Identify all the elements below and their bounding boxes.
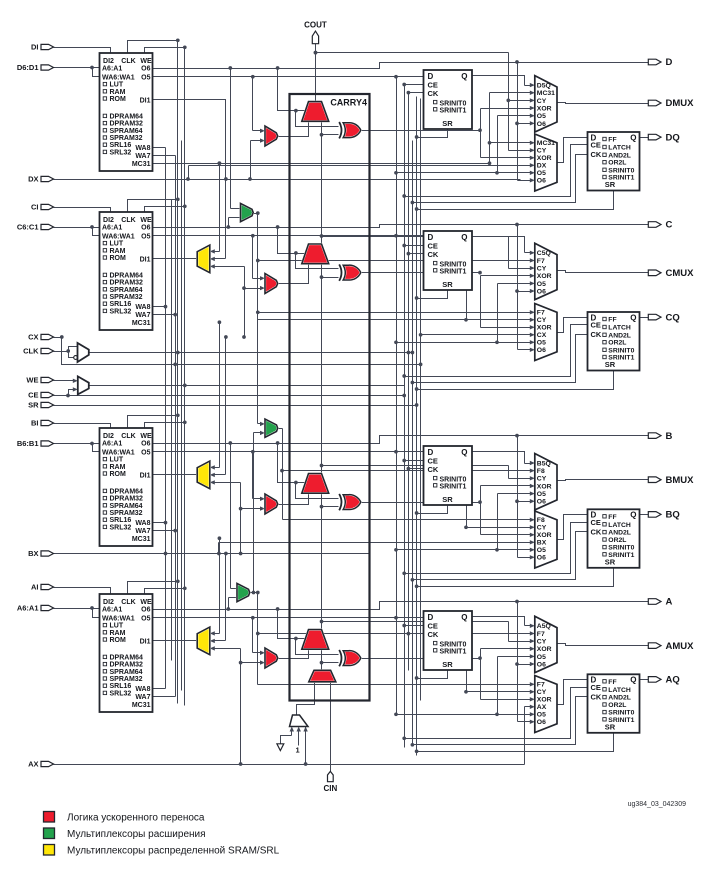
svg-text:SRINIT0: SRINIT0 [608,710,634,717]
svg-text:Мультиплексоры расширения: Мультиплексоры расширения [67,829,206,840]
wire [128,413,180,428]
wire C5Q [473,237,535,256]
svg-text:O5: O5 [537,340,546,347]
svg-text:LUT: LUT [110,457,124,464]
carry mux MUXCY D [302,102,329,122]
wire [145,420,187,428]
svg-text:SRINIT1: SRINIT1 [440,484,467,491]
wire CLK rail vertical [176,41,180,704]
port AQ [648,675,679,686]
svg-text:SR: SR [442,119,453,128]
wire [153,258,198,260]
svg-text:OR2L: OR2L [608,702,626,709]
svg-text:CMUX: CMUX [666,268,695,279]
LUT block D [100,53,153,171]
svg-text:AND2L: AND2L [608,695,631,702]
svg-text:O5: O5 [141,615,150,622]
svg-text:O6: O6 [537,555,546,562]
svg-text:CK: CK [591,330,602,339]
svg-text:CX: CX [537,332,547,339]
svg-text:XOR: XOR [537,105,552,112]
svg-text:RAM: RAM [110,464,126,471]
carry4 block [290,94,370,701]
wire WE rail vertical [183,47,187,706]
wire [276,607,309,638]
wire [402,688,587,741]
svg-text:ug384_03_042309: ug384_03_042309 [628,801,687,808]
svg-text:CY: CY [537,476,547,483]
wire [402,83,423,87]
svg-text:AQ: AQ [666,675,680,686]
svg-text:BMUX: BMUX [666,475,695,486]
svg-text:SPRAM32: SPRAM32 [110,510,143,517]
port BI [31,419,54,428]
svg-text:WE: WE [140,433,152,440]
svg-text:O5: O5 [141,449,150,456]
svg-text:XOR: XOR [537,155,552,162]
wire CE rail [404,85,406,748]
svg-text:SPRAM64: SPRAM64 [110,669,143,676]
port SR [28,401,53,410]
wire [228,66,241,208]
mux CFFMUX [535,304,557,361]
carry DI mux D [265,126,278,146]
svg-text:LATCH: LATCH [608,145,631,152]
svg-text:DI1: DI1 [140,639,151,646]
svg-text:Логика ускоренного переноса: Логика ускоренного переноса [67,813,205,824]
port CE [28,391,53,400]
wire A6:A1 bus [54,606,100,617]
wire WA7 chain [175,156,177,697]
svg-text:WE: WE [140,58,152,65]
svg-text:O6: O6 [141,607,150,614]
wire CYINIT out [297,683,315,716]
wire [558,271,649,273]
wire SR rail [416,97,418,756]
wire [258,234,535,322]
wire [276,225,309,253]
svg-text:BX: BX [28,549,38,558]
carry DI mux C [265,274,278,294]
wire [411,532,588,582]
carry init mux [309,670,336,682]
svg-text:XOR: XOR [537,532,552,539]
svg-text:RAM: RAM [110,89,126,96]
svg-text:CE: CE [591,683,601,692]
svg-text:SR: SR [605,723,616,732]
wire [402,459,423,463]
svg-text:CK: CK [591,150,602,159]
svg-text:SRL32: SRL32 [110,149,132,156]
svg-text:WA8: WA8 [135,304,150,311]
svg-text:O6: O6 [537,661,546,668]
svg-text:COUT: COUT [304,21,327,30]
wire [278,122,309,137]
port DQ [648,132,679,143]
svg-text:SRL16: SRL16 [110,301,132,308]
wire COUT net [314,44,318,102]
wire [171,200,173,661]
svg-text:B: B [666,431,673,442]
svg-text:SR: SR [28,401,39,410]
svg-text:SPRAM64: SPRAM64 [110,128,143,135]
legend SRAM/SRL muxes [44,845,280,857]
mux F7B [241,203,254,221]
svg-text:C: C [666,220,673,231]
wire [278,264,309,284]
svg-text:DI2: DI2 [103,58,114,65]
wire [210,264,246,339]
LUT block A [100,594,153,712]
wire [153,474,198,476]
wire [153,305,168,309]
svg-text:B6:B1: B6:B1 [17,439,39,448]
svg-text:SRINIT0: SRINIT0 [440,101,467,108]
wire [228,441,237,588]
svg-text:B5Q: B5Q [537,460,551,467]
svg-text:DI2: DI2 [103,217,114,224]
svg-text:DPRAM32: DPRAM32 [110,496,144,503]
svg-text:O6: O6 [537,288,546,295]
svg-text:O6: O6 [141,441,150,448]
svg-text:OR2L: OR2L [608,537,626,544]
svg-text:CE: CE [591,518,601,527]
wire CK line [89,351,415,355]
svg-text:O6: O6 [141,225,150,232]
wire carry chain [320,650,339,671]
svg-text:SPRAM32: SPRAM32 [110,676,143,683]
LUT block B [100,428,153,546]
svg-text:F7: F7 [537,631,545,638]
wire D6:D1 bus [54,66,100,77]
svg-text:SRL16: SRL16 [110,517,132,524]
svg-text:SRL16: SRL16 [110,683,132,690]
svg-text:BI: BI [31,419,39,428]
wire A5Q [473,617,535,629]
svg-text:SRINIT0: SRINIT0 [440,262,467,269]
wire [251,616,265,655]
wire [402,523,587,576]
svg-text:DI1: DI1 [140,98,151,105]
svg-text:CI: CI [31,203,39,212]
svg-text:ROM: ROM [110,637,127,644]
svg-text:SPRAM64: SPRAM64 [110,287,143,294]
svg-text:CX: CX [28,333,38,342]
wire AX to CYINIT [303,727,307,766]
port WE [26,376,53,385]
svg-text:O5: O5 [537,491,546,498]
svg-text:F7: F7 [537,310,545,317]
mux BDI1MUX [197,461,210,489]
wire [415,130,448,139]
svg-text:Q: Q [461,72,467,81]
wire carry chain [320,264,339,474]
mux BOUTMUX [535,454,557,510]
port D6:D1 [17,63,54,72]
port AMUX [648,641,694,652]
svg-text:Q: Q [461,233,467,242]
svg-text:CK: CK [428,250,439,259]
port CQ [648,312,679,323]
svg-text:AND2L: AND2L [608,332,631,339]
port B6:B1 [17,439,54,448]
svg-text:D6:D1: D6:D1 [17,63,39,72]
wire [411,335,588,385]
wire O6 C [153,225,649,228]
wire [239,506,265,510]
figure reference [628,801,687,808]
svg-text:ROM: ROM [110,471,127,478]
svg-text:Q: Q [461,613,467,622]
wire [251,450,265,501]
wire [640,317,649,319]
port AX [28,760,53,769]
wire [145,586,187,594]
mux AOUTMUX [535,616,557,672]
wire [226,598,237,611]
svg-text:MC31: MC31 [132,320,151,327]
flip-flop/latch BQ [588,509,640,568]
svg-text:RAM: RAM [110,248,126,255]
wire [153,529,178,533]
svg-text:F8: F8 [537,468,545,475]
svg-text:CK: CK [591,692,602,701]
svg-text:SPRAM64: SPRAM64 [110,503,143,510]
wire [314,51,535,153]
port CI [31,203,54,212]
svg-text:DI2: DI2 [103,599,114,606]
svg-text:CY: CY [537,317,547,324]
svg-text:AND2L: AND2L [608,152,631,159]
wire DX to DI1 [153,100,228,262]
mux COUTMUX [535,243,557,299]
wire CIN net [330,683,332,772]
wire [394,114,535,176]
wire CX [54,333,535,367]
carry DI mux B [265,494,278,514]
port C6:C1 [17,223,54,232]
svg-text:WA7: WA7 [135,528,150,535]
wire BI [54,424,111,429]
wire const 1 feed [297,727,301,746]
svg-text:DI1: DI1 [140,257,151,264]
svg-text:A6:A1: A6:A1 [102,607,122,614]
svg-text:CK: CK [591,527,602,536]
svg-text:DX: DX [28,175,38,184]
svg-text:SRINIT1: SRINIT1 [440,108,467,115]
wire [251,234,265,281]
mux DOUTMUX [535,76,557,132]
svg-text:SR: SR [442,660,453,669]
svg-text:CY: CY [537,98,547,105]
svg-text:MC31: MC31 [132,536,151,543]
svg-text:C5Q: C5Q [537,250,551,257]
svg-text:O6: O6 [537,499,546,506]
port CIN [324,771,338,793]
wire AX [54,705,535,765]
svg-text:XOR: XOR [537,273,552,280]
svg-text:1: 1 [296,746,300,755]
svg-text:WA7: WA7 [135,312,150,319]
flip-flop/latch DQ [588,132,640,191]
port COUT [304,21,327,44]
wire BX [54,540,535,555]
svg-text:A6:A1: A6:A1 [102,66,122,73]
wire [294,481,338,499]
svg-text:CK: CK [428,465,439,474]
port BMUX [648,475,694,486]
wire O5 B [153,450,424,454]
port BQ [648,510,679,521]
wire [210,161,221,253]
wire O6 B [153,436,649,444]
svg-text:O5: O5 [141,233,150,240]
wire [320,620,535,694]
wire CE [54,387,407,397]
svg-text:Q: Q [630,676,636,685]
wire [251,75,265,133]
svg-text:FF: FF [608,137,616,144]
wire [153,313,178,317]
wire [394,491,535,552]
wire [320,464,535,530]
wire [153,688,166,690]
svg-text:Q: Q [630,133,636,142]
mux CDI1MUX [197,245,210,273]
svg-text:XOR: XOR [537,697,552,704]
svg-text:CY: CY [537,639,547,646]
svg-text:DPRAM32: DPRAM32 [110,662,144,669]
wire [415,371,614,391]
mux ADI1MUX [197,627,210,655]
svg-text:XOR: XOR [537,646,552,653]
svg-text:SPRAM32: SPRAM32 [110,294,143,301]
svg-text:WA6:WA1: WA6:WA1 [102,615,135,622]
wire [415,191,614,211]
port BX [28,549,53,558]
svg-text:O5: O5 [537,547,546,554]
carry mux MUXCY B [302,474,329,494]
svg-text:WA6:WA1: WA6:WA1 [102,449,135,456]
wire CLK net [54,347,78,358]
wire [558,680,588,705]
wire [210,536,221,635]
svg-text:A6:A1: A6:A1 [17,604,39,613]
wire [276,66,309,110]
svg-text:DMUX: DMUX [666,98,695,109]
port C [648,220,672,231]
svg-text:CLK: CLK [121,599,135,606]
svg-text:DPRAM64: DPRAM64 [110,488,144,495]
svg-text:WE: WE [26,376,38,385]
svg-text:SR: SR [442,495,453,504]
svg-text:CE: CE [28,391,38,400]
wire O5 rail [396,76,398,715]
wire [407,252,424,256]
wire WA8 chain [165,148,167,689]
wire carry chain [320,122,339,245]
wire WE out [89,385,405,387]
wire CI [54,208,111,213]
wire [153,147,166,149]
legend fast carry logic [44,812,205,824]
wire [278,494,309,505]
wire [362,647,535,702]
wire C6:C1 bus [54,225,100,235]
svg-text:A6:A1: A6:A1 [102,441,122,448]
carry mux MUXCY C [302,244,329,264]
wire [640,137,649,139]
svg-text:CIN: CIN [324,784,338,793]
wire [278,429,535,523]
svg-text:AND2L: AND2L [608,530,631,537]
svg-text:WA7: WA7 [135,153,150,160]
svg-text:SRL32: SRL32 [110,308,132,315]
svg-text:DPRAM64: DPRAM64 [110,272,144,279]
port A6:A1 [17,604,54,613]
svg-text:WA8: WA8 [135,145,150,152]
port D [648,57,672,68]
wire [145,45,187,53]
wire [276,441,309,482]
wire O5 D [153,75,424,79]
svg-text:SR: SR [605,180,616,189]
ground symbol [277,744,284,751]
svg-text:LATCH: LATCH [608,522,631,529]
mux BFFMUX [535,511,557,568]
wire [128,579,180,594]
wire [402,145,587,198]
svg-text:CE: CE [591,141,601,150]
svg-text:AMUX: AMUX [666,641,695,652]
port CLK [23,347,53,356]
svg-text:Мультиплексоры распределенной: Мультиплексоры распределенной SRAM/SRL [67,846,280,857]
wire CK rail a [408,93,410,671]
svg-text:DQ: DQ [666,132,680,143]
svg-text:SRINIT0: SRINIT0 [608,347,634,354]
svg-text:F7: F7 [537,258,545,265]
wire carry chain [320,494,339,630]
wire [145,204,187,212]
wire O5 C [153,234,424,238]
svg-text:DX: DX [537,163,547,170]
svg-text:O5: O5 [537,113,546,120]
svg-text:FF: FF [608,317,616,324]
carry init select mux [290,715,309,727]
port B [648,431,672,442]
port CX [28,333,53,342]
wire B6:B1 bus [54,442,100,452]
flip-flop/latch AQ [588,674,640,733]
wire [558,480,649,481]
svg-text:AX: AX [537,704,547,711]
constant 1 label [296,746,300,755]
port DX [28,175,53,184]
svg-text:MC31: MC31 [132,161,151,168]
svg-text:O6: O6 [537,347,546,354]
wire [362,106,535,160]
wire WA8=BX join [164,552,168,556]
wire MC31 D [153,91,535,165]
svg-text:DPRAM32: DPRAM32 [110,121,144,128]
svg-text:AI: AI [31,583,39,592]
svg-text:CK: CK [428,630,439,639]
svg-text:LUT: LUT [110,623,124,630]
wire [153,640,198,642]
svg-text:RAM: RAM [110,630,126,637]
wire [515,223,535,352]
svg-text:MC31: MC31 [132,702,151,709]
